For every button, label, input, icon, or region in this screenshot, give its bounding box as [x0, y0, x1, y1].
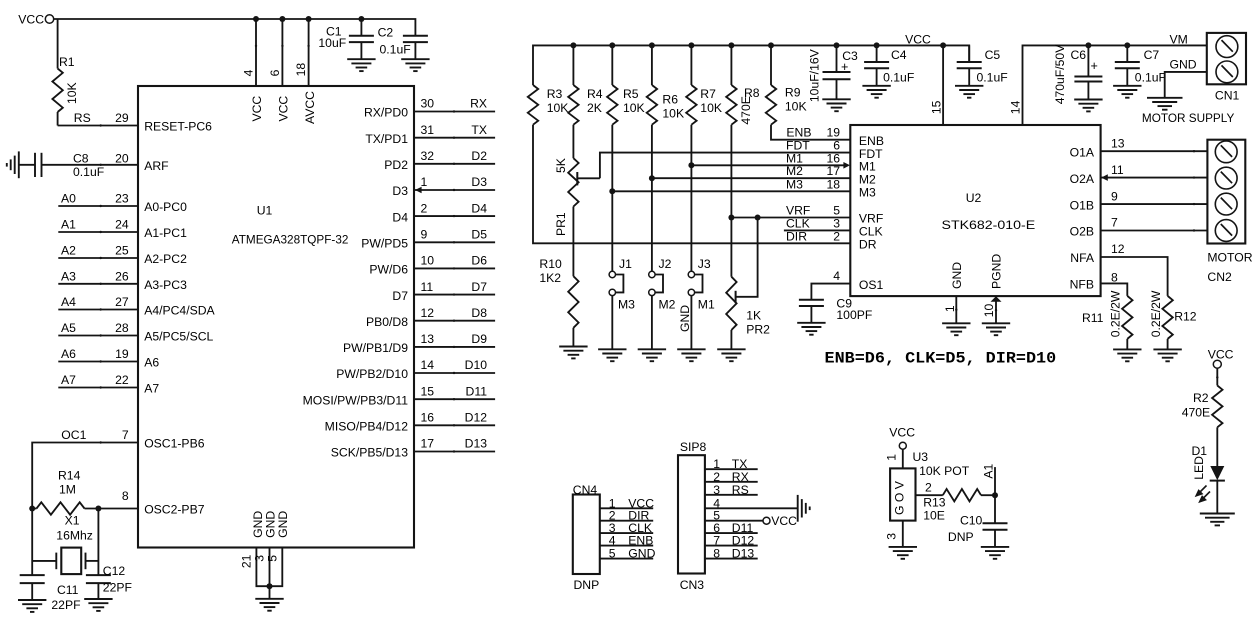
svg-text:R3: R3 — [547, 87, 563, 101]
node junction C7 — [1124, 42, 1130, 48]
svg-text:23: 23 — [115, 192, 129, 206]
ground C3 — [822, 99, 850, 111]
svg-text:470E: 470E — [1182, 405, 1210, 419]
svg-text:17: 17 — [826, 164, 840, 178]
svg-text:O2A: O2A — [1070, 172, 1095, 186]
ground PR2 — [717, 349, 745, 361]
svg-text:VCC: VCC — [771, 514, 797, 528]
arrow input M1 pin 16 — [843, 162, 850, 169]
svg-text:3: 3 — [833, 216, 840, 230]
svg-text:VRF: VRF — [786, 204, 810, 218]
wire M3 net — [612, 177, 850, 191]
wire CN3 pin 5 to VCC — [705, 509, 797, 528]
wire A7 pin 22 — [58, 373, 138, 389]
wire NFB pin 8 — [1101, 270, 1128, 296]
svg-text:20: 20 — [115, 152, 129, 166]
svg-text:1: 1 — [943, 305, 957, 312]
svg-text:12: 12 — [421, 306, 435, 320]
capacitor C9 — [799, 296, 872, 323]
svg-text:U1: U1 — [257, 204, 273, 218]
svg-text:O1A: O1A — [1070, 145, 1095, 159]
svg-text:16Mhz: 16Mhz — [56, 528, 93, 542]
wire M1 net — [691, 151, 843, 165]
jumper J2 — [649, 257, 676, 349]
ground U2 PGND — [982, 323, 1010, 335]
capacitor C5 — [957, 45, 1008, 85]
svg-text:A3: A3 — [61, 269, 76, 283]
svg-text:DNP: DNP — [948, 530, 974, 544]
svg-text:C8: C8 — [73, 152, 89, 166]
svg-text:M1: M1 — [698, 297, 715, 311]
svg-text:7: 7 — [122, 428, 129, 442]
svg-text:7: 7 — [1111, 216, 1118, 230]
svg-text:22: 22 — [115, 373, 129, 387]
connector CN4 — [573, 483, 656, 592]
svg-text:CN3: CN3 — [680, 578, 705, 592]
svg-text:PB0/D8: PB0/D8 — [366, 315, 408, 329]
ground C8 — [7, 151, 19, 178]
ground motor supply — [1147, 98, 1183, 110]
svg-text:M3: M3 — [786, 177, 803, 191]
svg-text:15: 15 — [930, 100, 944, 114]
wire GND pins 21 3 5 — [239, 511, 290, 599]
node junction R4 — [570, 42, 576, 48]
ground U1 — [255, 599, 283, 611]
capacitor C12 — [86, 564, 132, 599]
svg-text:14: 14 — [1009, 100, 1023, 114]
ground C11 — [18, 600, 46, 612]
wire C12 branch — [97, 509, 99, 576]
svg-text:R4: R4 — [587, 87, 603, 101]
wire A1 pin 24 — [58, 218, 138, 234]
svg-text:8: 8 — [1111, 270, 1118, 284]
svg-text:13: 13 — [421, 332, 435, 346]
svg-text:M2: M2 — [659, 297, 676, 311]
svg-text:1K2: 1K2 — [539, 271, 561, 285]
svg-text:+: + — [1091, 59, 1098, 73]
svg-text:M2: M2 — [859, 172, 876, 186]
wire VCC rail to C2 — [54, 19, 416, 36]
svg-text:R6: R6 — [662, 93, 678, 107]
svg-text:470uF/50V: 470uF/50V — [1053, 44, 1067, 104]
svg-text:+: + — [841, 60, 848, 74]
node junction M1 — [688, 162, 694, 168]
svg-text:R2: R2 — [1193, 391, 1209, 405]
svg-text:A1: A1 — [61, 218, 76, 232]
svg-text:16: 16 — [421, 411, 435, 425]
resistor R2 — [1182, 368, 1223, 466]
connector CN3 — [678, 440, 758, 592]
svg-text:M1: M1 — [859, 160, 876, 174]
svg-text:PGND: PGND — [990, 254, 1004, 289]
ground D1 — [1200, 514, 1235, 526]
wire VCC pin 6 — [268, 19, 291, 122]
svg-text:A1: A1 — [982, 463, 996, 478]
node junction R14 right — [95, 506, 101, 512]
wire U3 pin 3 — [885, 521, 903, 547]
svg-text:10K POT: 10K POT — [919, 464, 970, 478]
svg-text:D5: D5 — [471, 228, 487, 242]
svg-text:8: 8 — [713, 547, 720, 561]
svg-text:M1: M1 — [786, 151, 803, 165]
svg-text:STK682-010-E: STK682-010-E — [942, 218, 1036, 232]
svg-text:0.1uF: 0.1uF — [380, 43, 411, 57]
svg-text:10: 10 — [982, 304, 996, 318]
svg-text:MOTOR SUPPLY: MOTOR SUPPLY — [1142, 111, 1234, 125]
potentiometer PR1 — [554, 125, 579, 236]
power label VCC mid — [905, 32, 931, 46]
wire A3 pin 26 — [58, 269, 138, 285]
wire VCC rail middle — [533, 45, 969, 85]
svg-text:PW/PD5: PW/PD5 — [361, 237, 408, 251]
svg-text:DNP: DNP — [574, 578, 600, 592]
svg-text:PR1: PR1 — [554, 212, 568, 236]
arrow input D3 pin 1 — [415, 187, 422, 194]
svg-text:D11: D11 — [466, 384, 488, 398]
svg-text:ENB: ENB — [859, 134, 884, 148]
node junction GND pins — [267, 583, 273, 589]
ground C9 — [797, 323, 825, 335]
wire CN3 pin 4 to ground — [705, 496, 798, 510]
node junction pin6 — [279, 16, 285, 22]
node junction R7 — [688, 42, 694, 48]
node junction C3 — [834, 42, 840, 48]
node junction pin15 — [940, 42, 946, 48]
svg-text:ENB=D6, CLK=D5, DIR=D10: ENB=D6, CLK=D5, DIR=D10 — [825, 349, 1057, 367]
ic U2 bottom pin names — [950, 254, 1004, 289]
resistor R9 — [766, 45, 807, 124]
svg-text:A7: A7 — [144, 382, 159, 396]
svg-text:OSC1-PB6: OSC1-PB6 — [144, 437, 205, 451]
svg-text:D13: D13 — [465, 437, 488, 451]
wire CLK net — [784, 216, 850, 230]
wire FDT net wiper — [577, 139, 850, 186]
svg-text:SCK/PB5/D13: SCK/PB5/D13 — [331, 446, 408, 460]
svg-text:13: 13 — [1111, 136, 1125, 150]
svg-text:D4: D4 — [471, 201, 487, 215]
svg-text:5: 5 — [266, 555, 280, 562]
svg-text:10E: 10E — [923, 508, 945, 522]
svg-text:8: 8 — [122, 489, 129, 503]
node junction R8 — [728, 42, 734, 48]
svg-text:C10: C10 — [960, 514, 983, 528]
wire OS1 pin 4 — [811, 269, 850, 300]
svg-text:10K: 10K — [700, 101, 722, 115]
wire M2 net — [652, 164, 850, 178]
node junction C4 — [874, 42, 880, 48]
wire DIR net — [533, 125, 850, 244]
power VCC terminal D1 — [1208, 347, 1234, 368]
wire A6 pin 19 — [58, 347, 138, 363]
svg-text:VRF: VRF — [859, 212, 883, 226]
svg-text:R1: R1 — [59, 55, 75, 69]
svg-text:10uF/16V: 10uF/16V — [808, 48, 822, 102]
svg-text:A5/PC5/SCL: A5/PC5/SCL — [144, 330, 213, 344]
svg-text:GND: GND — [678, 305, 692, 332]
svg-text:RESET-PC6: RESET-PC6 — [144, 120, 212, 134]
svg-text:CN2: CN2 — [1207, 270, 1232, 284]
ground C5 — [955, 86, 983, 98]
svg-text:RS: RS — [74, 111, 91, 125]
svg-text:VCC: VCC — [277, 96, 291, 122]
wire GND pin 1 — [943, 296, 957, 323]
node junction VRF wiper — [755, 215, 761, 221]
svg-text:0.2E/2W: 0.2E/2W — [1149, 290, 1163, 337]
capacitor C11 — [20, 575, 81, 612]
ground R12 — [1153, 349, 1181, 361]
power VCC terminal U3 — [889, 426, 915, 450]
svg-text:O1B: O1B — [1070, 198, 1094, 212]
svg-text:1K: 1K — [746, 309, 761, 323]
svg-text:10: 10 — [421, 254, 435, 268]
wire ENB net — [771, 125, 850, 140]
svg-text:10K: 10K — [65, 82, 79, 104]
svg-text:VCC: VCC — [250, 96, 264, 122]
ground U3 — [889, 547, 917, 559]
svg-text:C4: C4 — [891, 48, 907, 62]
svg-text:A1-PC1: A1-PC1 — [144, 226, 187, 240]
svg-text:3: 3 — [885, 533, 899, 540]
svg-text:30: 30 — [421, 97, 435, 111]
svg-text:D4: D4 — [392, 210, 408, 224]
node junction R9 — [768, 42, 774, 48]
svg-text:R7: R7 — [700, 87, 716, 101]
svg-text:10K: 10K — [785, 99, 807, 113]
resistor R1 — [52, 19, 79, 126]
ground C1 — [347, 59, 375, 71]
svg-text:VCC: VCC — [18, 13, 44, 27]
svg-text:18: 18 — [294, 63, 308, 77]
note ENB CLK DIR — [825, 349, 1057, 367]
svg-text:0.1uF: 0.1uF — [73, 165, 104, 179]
svg-text:NFA: NFA — [1070, 251, 1095, 265]
capacitor C6 — [1053, 44, 1102, 104]
svg-text:M2: M2 — [786, 164, 803, 178]
svg-text:A4: A4 — [61, 295, 76, 309]
wire A2 pin 25 — [58, 244, 138, 260]
power VCC terminal — [18, 13, 53, 27]
svg-text:R12: R12 — [1174, 310, 1197, 324]
svg-text:2: 2 — [925, 480, 932, 494]
svg-text:0.1uF: 0.1uF — [883, 70, 914, 84]
ground C7 — [1113, 86, 1141, 98]
resistor R6 — [647, 45, 684, 124]
svg-text:D1: D1 — [1192, 444, 1208, 458]
resistor R5 — [607, 45, 645, 124]
resistor R14 — [32, 469, 138, 515]
wire A4 pin 27 — [58, 295, 138, 311]
ground R10 — [559, 347, 587, 359]
wire R7 to J3 — [690, 125, 692, 272]
svg-text:AVCC: AVCC — [303, 91, 317, 124]
crystal X1 — [32, 513, 98, 574]
wire VCC pin 15 — [930, 45, 952, 159]
node junction pin18 — [306, 16, 312, 22]
node junction R14 left — [29, 506, 35, 512]
svg-text:5: 5 — [609, 547, 616, 561]
svg-text:TX: TX — [471, 123, 487, 137]
wire R5 to J1 — [611, 125, 613, 272]
ground J3 — [677, 349, 705, 361]
svg-text:CLK: CLK — [859, 225, 883, 239]
svg-text:1M: 1M — [59, 483, 76, 497]
svg-text:PW/D6: PW/D6 — [369, 263, 408, 277]
svg-text:PW/PB1/D9: PW/PB1/D9 — [343, 341, 408, 355]
svg-text:D12: D12 — [732, 534, 755, 548]
svg-text:2K: 2K — [587, 101, 602, 115]
svg-text:D13: D13 — [732, 547, 755, 561]
svg-text:G O V: G O V — [892, 480, 906, 515]
svg-text:GND: GND — [950, 262, 964, 289]
svg-text:VM: VM — [1170, 32, 1188, 46]
svg-text:10K: 10K — [547, 101, 569, 115]
svg-text:D10: D10 — [465, 358, 488, 372]
svg-text:1: 1 — [885, 454, 899, 461]
ground R11 — [1113, 349, 1141, 361]
svg-text:D3: D3 — [471, 175, 487, 189]
svg-text:10K: 10K — [662, 107, 684, 121]
svg-text:MISO/PB4/D12: MISO/PB4/D12 — [325, 420, 409, 434]
svg-text:O2B: O2B — [1070, 225, 1094, 239]
svg-text:VCC: VCC — [905, 32, 931, 46]
ground C12 — [84, 599, 112, 611]
ground C6 — [1074, 100, 1102, 112]
svg-text:C11: C11 — [57, 583, 79, 597]
svg-text:VCC: VCC — [889, 426, 915, 440]
resistor R10 — [539, 207, 578, 347]
wire VCC pin 4 — [242, 19, 265, 122]
svg-text:3: 3 — [713, 483, 720, 497]
svg-text:MOSI/PW/PB3/D11: MOSI/PW/PB3/D11 — [303, 393, 409, 407]
connector CN2 — [1207, 140, 1252, 284]
svg-text:32: 32 — [421, 149, 435, 163]
svg-text:18: 18 — [826, 177, 840, 191]
svg-text:ATMEGA328TQPF-32: ATMEGA328TQPF-32 — [232, 232, 349, 246]
svg-text:29: 29 — [115, 111, 129, 125]
wire A5 pin 28 — [58, 321, 138, 337]
ic U1 right pins — [303, 97, 496, 460]
wire U3 pin 1 — [885, 449, 903, 468]
resistor R3 — [528, 85, 569, 125]
svg-text:D7: D7 — [471, 280, 487, 294]
ground C4 — [862, 86, 890, 98]
svg-text:C2: C2 — [378, 25, 394, 39]
potentiometer PR2 — [726, 218, 770, 350]
resistor R4 — [568, 45, 603, 124]
svg-text:D8: D8 — [471, 306, 487, 320]
svg-text:CN4: CN4 — [573, 483, 598, 497]
capacitor C7 — [1115, 45, 1166, 85]
capacitor C4 — [864, 45, 914, 85]
svg-text:21: 21 — [239, 554, 253, 568]
svg-text:DIR: DIR — [786, 230, 807, 244]
capacitor C3 — [808, 45, 859, 102]
svg-text:R14: R14 — [58, 469, 81, 483]
svg-text:A2-PC2: A2-PC2 — [144, 252, 187, 266]
svg-text:C6: C6 — [1071, 48, 1087, 62]
jumper J1 — [609, 257, 635, 349]
svg-text:ENB: ENB — [786, 126, 811, 140]
arrow input O2A pin 11 — [1101, 174, 1108, 181]
ground C10 — [981, 547, 1009, 559]
svg-text:U2: U2 — [966, 191, 982, 205]
svg-text:M3: M3 — [859, 186, 876, 200]
svg-text:26: 26 — [115, 269, 129, 283]
svg-text:A2: A2 — [61, 244, 76, 258]
wire OC1 to OSC1 pin 7 — [32, 428, 138, 575]
svg-text:C12: C12 — [103, 564, 126, 578]
node A1 — [982, 463, 998, 523]
svg-text:J2: J2 — [659, 257, 672, 271]
svg-text:A4/PC4/SDA: A4/PC4/SDA — [144, 304, 215, 318]
node junction C6 — [1085, 42, 1091, 48]
svg-text:OSC2-PB7: OSC2-PB7 — [144, 503, 205, 517]
svg-text:5K: 5K — [554, 158, 568, 173]
ground J1 — [598, 349, 626, 361]
svg-text:10K: 10K — [623, 101, 645, 115]
resistor R12 — [1149, 290, 1197, 349]
svg-text:A3-PC3: A3-PC3 — [144, 278, 187, 292]
node junction pin4 — [253, 16, 259, 22]
svg-text:15: 15 — [421, 384, 435, 398]
svg-text:A6: A6 — [144, 356, 159, 370]
svg-text:OC1: OC1 — [61, 428, 86, 442]
svg-text:100PF: 100PF — [836, 308, 872, 322]
svg-text:GND: GND — [1170, 58, 1197, 72]
node junction M2 — [649, 175, 655, 181]
capacitor C1 — [318, 19, 374, 59]
svg-text:PR2: PR2 — [746, 322, 770, 336]
svg-text:TX/PD1: TX/PD1 — [365, 132, 408, 146]
ic U3 10K POT body — [890, 450, 970, 521]
svg-text:U3: U3 — [913, 450, 929, 464]
svg-text:RX/PD0: RX/PD0 — [364, 106, 408, 120]
svg-text:ARF: ARF — [144, 159, 168, 173]
svg-text:R9: R9 — [785, 85, 801, 99]
node junction M3 — [609, 188, 615, 194]
ic U2 STK682-010-E body — [850, 125, 1100, 296]
svg-text:D6: D6 — [471, 254, 487, 268]
svg-text:PD2: PD2 — [384, 158, 408, 172]
svg-text:14: 14 — [421, 358, 435, 372]
svg-text:SIP8: SIP8 — [680, 440, 707, 454]
wire VRF net — [731, 204, 850, 218]
ic U1 left pin names — [144, 120, 215, 517]
resistor R8 — [726, 45, 760, 124]
svg-text:2: 2 — [713, 470, 720, 484]
wire motor outputs O1A O2A O1B O2B — [1101, 136, 1208, 231]
svg-text:24: 24 — [115, 218, 129, 232]
ground J2 — [638, 349, 666, 361]
ground CN3 pin 4 — [798, 495, 810, 522]
wire PGND pin 10 — [982, 296, 997, 323]
svg-text:RS: RS — [732, 483, 749, 497]
wire R8 to PR2 — [730, 125, 732, 277]
wire RS to RESET pin 29 — [58, 111, 138, 127]
svg-text:22PF: 22PF — [51, 598, 80, 612]
svg-text:D3: D3 — [392, 184, 408, 198]
svg-text:J3: J3 — [698, 257, 711, 271]
capacitor C8 — [19, 152, 138, 180]
svg-text:R10: R10 — [539, 257, 562, 271]
node junction VRF R8 — [728, 215, 734, 221]
svg-text:16: 16 — [826, 151, 840, 165]
svg-text:D2: D2 — [471, 149, 487, 163]
arrow PGND — [991, 296, 1002, 301]
svg-text:D9: D9 — [471, 332, 487, 346]
svg-text:6: 6 — [268, 69, 282, 76]
svg-text:12: 12 — [1111, 242, 1125, 256]
